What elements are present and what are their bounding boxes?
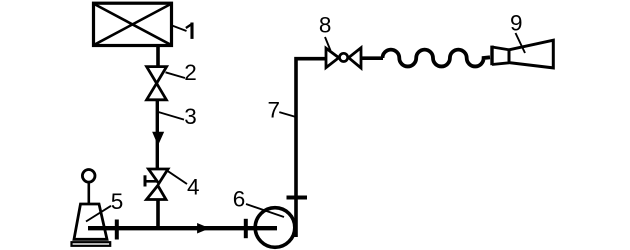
svg-text:4: 4: [187, 175, 200, 200]
svg-text:2: 2: [184, 60, 197, 85]
svg-text:8: 8: [319, 12, 332, 37]
svg-text:3: 3: [184, 104, 197, 129]
svg-text:6: 6: [233, 187, 246, 212]
svg-text:7: 7: [268, 98, 281, 123]
svg-text:5: 5: [111, 189, 124, 214]
svg-text:9: 9: [510, 11, 523, 36]
